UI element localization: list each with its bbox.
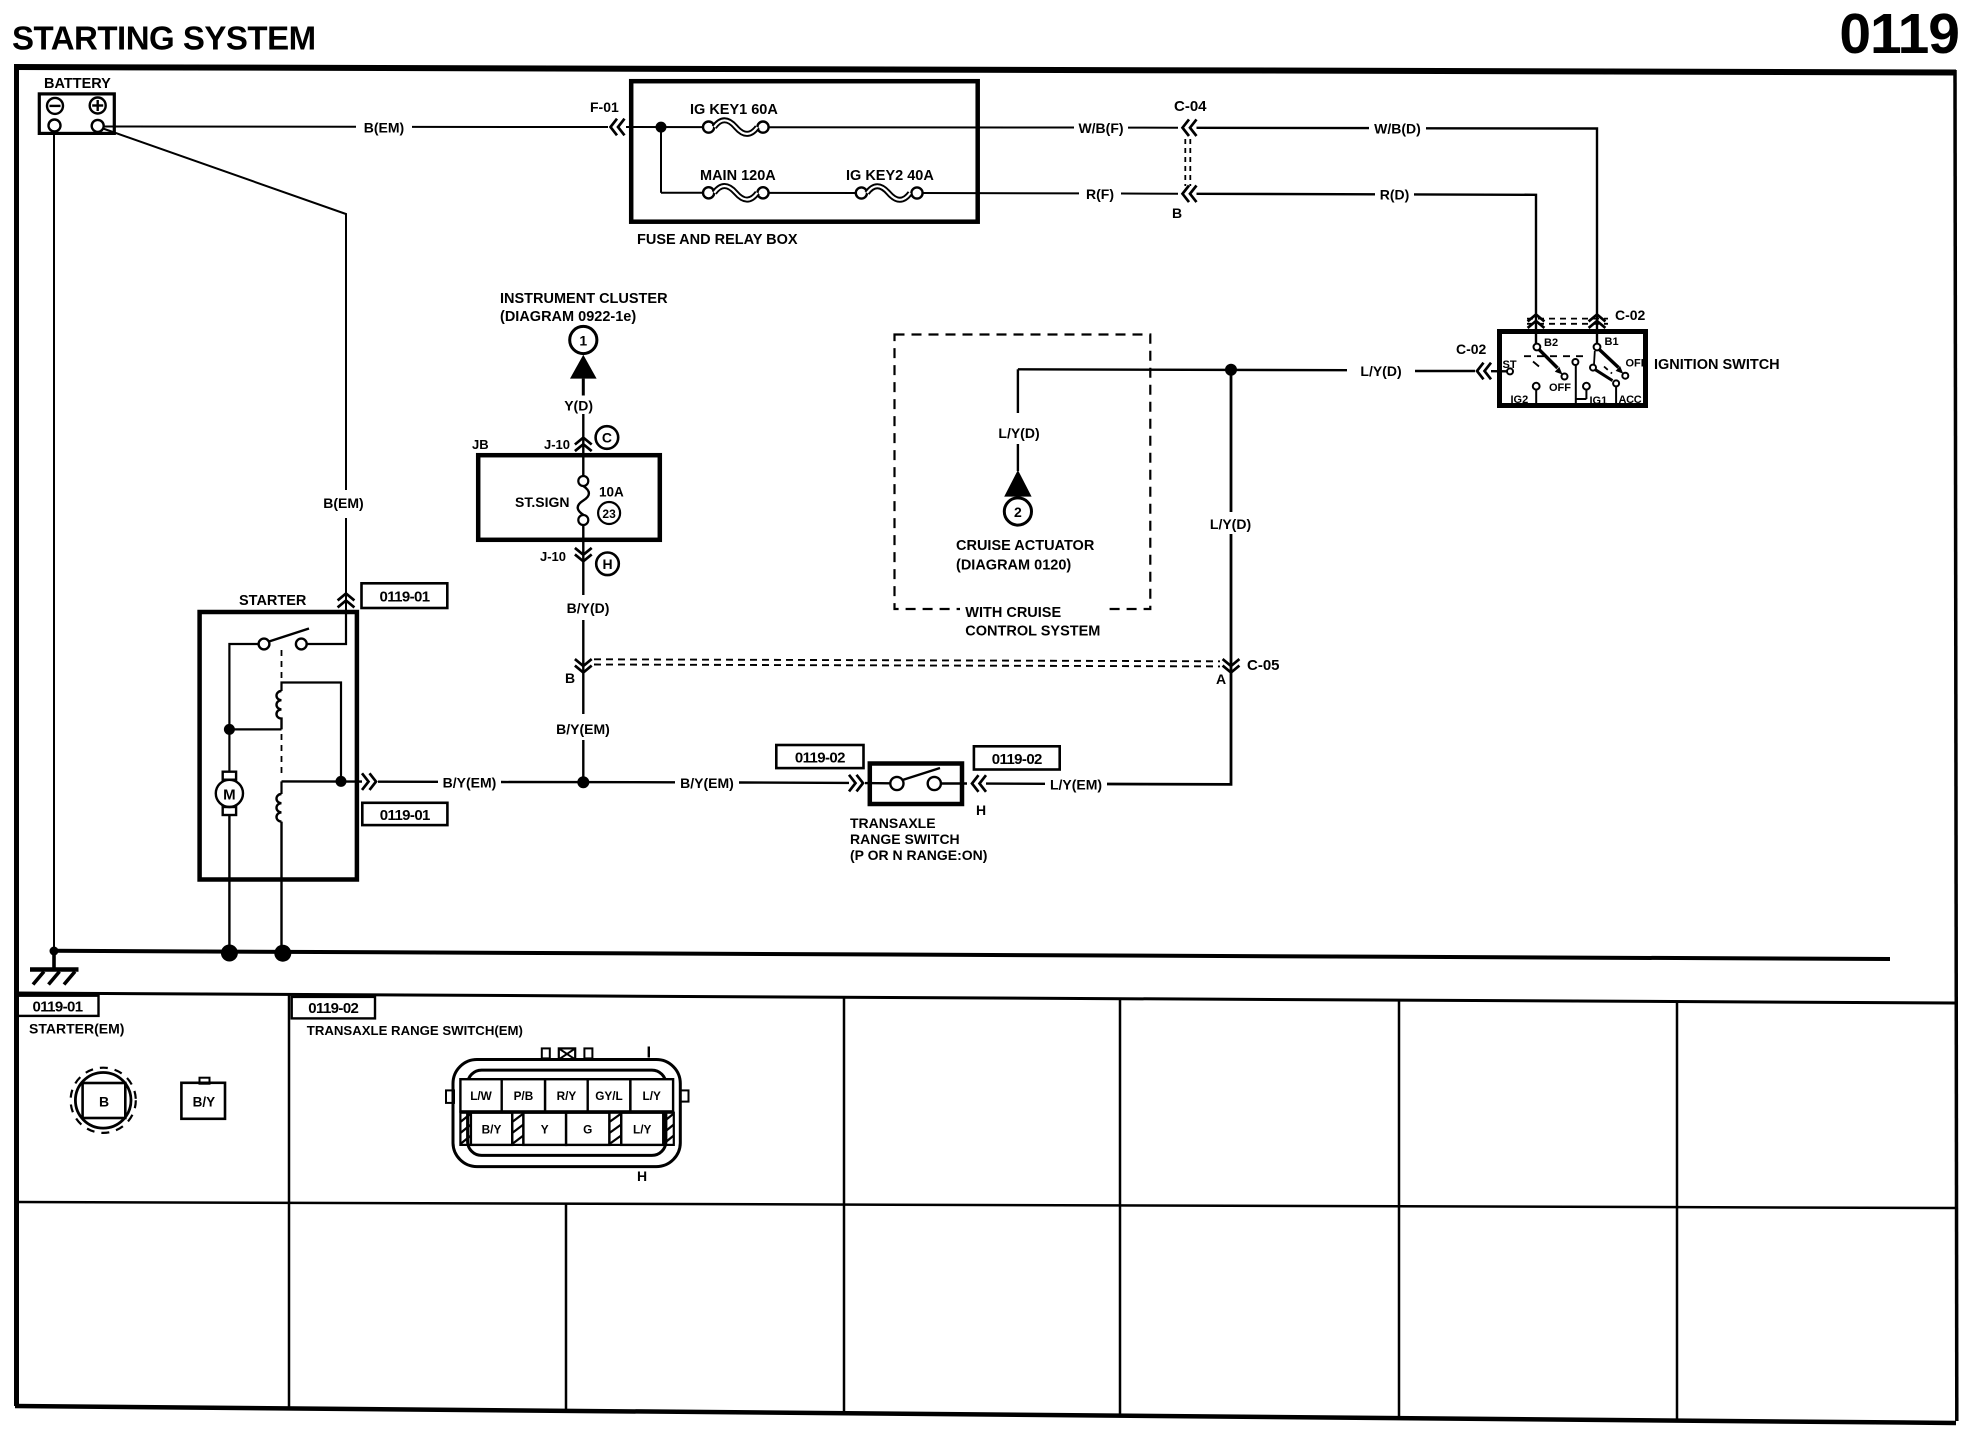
transaxle switch internals bbox=[865, 768, 967, 790]
svg-text:STARTING SYSTEM: STARTING SYSTEM bbox=[12, 20, 316, 57]
svg-text:A: A bbox=[1216, 671, 1226, 687]
svg-text:J-10: J-10 bbox=[540, 549, 566, 564]
connector B/Y (starter terminal) bbox=[181, 1078, 225, 1119]
battery bbox=[39, 94, 114, 133]
svg-text:CRUISE ACTUATOR: CRUISE ACTUATOR bbox=[956, 538, 1095, 554]
pin row 1 bbox=[460, 1079, 673, 1111]
svg-text:0119: 0119 bbox=[1839, 2, 1959, 66]
svg-text:B/Y(EM): B/Y(EM) bbox=[556, 721, 610, 737]
svg-text:B: B bbox=[1172, 205, 1182, 221]
svg-text:L/Y: L/Y bbox=[633, 1123, 651, 1137]
connector side tabs bbox=[446, 1090, 454, 1103]
junction dot motor to bus bbox=[221, 945, 238, 962]
wire B(EM) vertical to starter bbox=[345, 518, 347, 641]
starter box bbox=[200, 612, 357, 880]
wire W/B(D) bbox=[1197, 127, 1370, 130]
connector 0119-01 chevrons starter output bbox=[362, 773, 376, 790]
label box 0119-02 (transaxle right) bbox=[974, 746, 1060, 769]
terminal B1 bbox=[1594, 344, 1601, 351]
connector pin C circled bbox=[596, 426, 619, 449]
svg-text:C-02: C-02 bbox=[1615, 307, 1646, 323]
ignition switch box bbox=[1500, 332, 1646, 406]
svg-text:H: H bbox=[976, 802, 986, 818]
svg-text:B1: B1 bbox=[1605, 336, 1619, 348]
connector J-10 top chevrons bbox=[575, 438, 592, 452]
svg-text:Y(D): Y(D) bbox=[564, 398, 593, 414]
wire fuse2 to R(F) bbox=[923, 192, 1079, 194]
fuse number 23 circled bbox=[598, 502, 620, 524]
connector C-04 upper chevrons bbox=[1183, 119, 1197, 136]
connector C-02 ST chevrons bbox=[1477, 363, 1491, 380]
svg-text:L/Y: L/Y bbox=[643, 1089, 661, 1103]
fuse IG KEY1 60A bbox=[703, 120, 769, 134]
svg-text:W/B(D): W/B(D) bbox=[1374, 121, 1421, 137]
linkage dashes bbox=[1524, 355, 1589, 357]
hold-in coil bbox=[277, 794, 282, 822]
label box 0119-02 (transaxle left) bbox=[776, 745, 863, 768]
instrument cluster circle 1 bbox=[570, 326, 597, 353]
junction dot B/Y(EM) bbox=[577, 776, 589, 788]
wire R(F) to C-04 bbox=[1121, 193, 1178, 195]
cruise actuator arrow bbox=[1004, 470, 1031, 497]
fuse IG KEY2 40A bbox=[856, 186, 923, 200]
starter internal wire from top bbox=[307, 610, 347, 644]
svg-text:IG2: IG2 bbox=[1511, 394, 1529, 406]
wire B/Y(EM) to transaxle bbox=[378, 781, 438, 783]
terminal IG2 with stub bbox=[1533, 383, 1540, 390]
wire L/Y(D) horizontal bbox=[1018, 368, 1347, 371]
table label box 0119-02 bbox=[292, 997, 375, 1019]
svg-text:G: G bbox=[583, 1123, 592, 1137]
svg-text:C-04: C-04 bbox=[1174, 98, 1207, 115]
starter output wire B/Y(EM) bbox=[282, 780, 363, 783]
svg-text:ST: ST bbox=[1503, 359, 1517, 371]
connector 0119-02 chevrons transaxle right bbox=[972, 775, 986, 792]
wire B(EM) horizontal battery to F-01 bbox=[104, 126, 356, 128]
wire into fuse box with junction bbox=[626, 126, 704, 128]
junction dot in starter bbox=[224, 724, 235, 735]
wire W/B(F) to C-04 bbox=[1128, 127, 1178, 129]
svg-text:M: M bbox=[223, 787, 236, 804]
solenoid plunger dashed link bbox=[281, 650, 283, 682]
svg-text:IG1: IG1 bbox=[1590, 395, 1608, 407]
label WITH CRUISE CONTROL SYSTEM bbox=[960, 599, 1105, 620]
svg-text:B/Y(EM): B/Y(EM) bbox=[680, 775, 734, 791]
svg-text:P/B: P/B bbox=[514, 1089, 534, 1103]
svg-text:CONTROL SYSTEM: CONTROL SYSTEM bbox=[965, 624, 1100, 640]
svg-text:0119-01: 0119-01 bbox=[32, 999, 82, 1016]
junction block JB box bbox=[478, 455, 660, 540]
svg-text:GY/L: GY/L bbox=[595, 1089, 623, 1103]
connector 0119-02 chevrons transaxle left bbox=[849, 775, 863, 792]
svg-text:0119-02: 0119-02 bbox=[795, 750, 845, 767]
svg-text:STARTER(EM): STARTER(EM) bbox=[29, 1021, 124, 1037]
wire between fuses bbox=[769, 192, 856, 194]
svg-text:B(EM): B(EM) bbox=[323, 495, 363, 511]
svg-text:2: 2 bbox=[1014, 504, 1022, 520]
svg-text:WITH CRUISE: WITH CRUISE bbox=[965, 605, 1061, 621]
table grid bbox=[15, 993, 1956, 1423]
svg-text:(P OR N RANGE:ON): (P OR N RANGE:ON) bbox=[850, 847, 987, 863]
connector C-02 chevrons above ignition switch bbox=[1528, 315, 1545, 328]
starter motor bbox=[216, 772, 243, 815]
svg-text:B/Y(D): B/Y(D) bbox=[567, 600, 610, 616]
svg-text:B: B bbox=[565, 670, 575, 686]
svg-text:L/Y(EM): L/Y(EM) bbox=[1050, 777, 1102, 793]
svg-text:R(D): R(D) bbox=[1380, 187, 1410, 203]
junction dot F-01 feed bbox=[656, 122, 667, 133]
svg-text:RANGE SWITCH: RANGE SWITCH bbox=[850, 831, 960, 847]
connector J-10 bottom chevrons bbox=[575, 548, 592, 561]
svg-text:B/Y: B/Y bbox=[482, 1123, 502, 1137]
wire motor to ground bus bbox=[228, 815, 230, 954]
transaxle range switch box bbox=[870, 764, 962, 805]
starter solenoid switch bbox=[259, 629, 309, 650]
svg-text:R(F): R(F) bbox=[1086, 186, 1114, 202]
svg-text:L/W: L/W bbox=[470, 1089, 492, 1103]
svg-text:0119-01: 0119-01 bbox=[380, 807, 430, 824]
connector housing bbox=[453, 1060, 680, 1167]
junction dot battery to bus bbox=[50, 947, 59, 956]
connector C-04 lower chevrons bbox=[1183, 186, 1197, 203]
wire B/Y(D) bbox=[582, 562, 584, 595]
label box 0119-01 (starter top) bbox=[362, 583, 448, 608]
ignition terminal labels bbox=[1503, 336, 1648, 407]
svg-text:IG KEY1 60A: IG KEY1 60A bbox=[690, 102, 778, 118]
switch arm B1-OFF bbox=[1599, 349, 1618, 367]
terminal B2 bbox=[1534, 344, 1541, 351]
svg-text:B(EM): B(EM) bbox=[364, 120, 404, 136]
svg-text:B/Y: B/Y bbox=[193, 1095, 216, 1110]
wire junction to pull-in coil bbox=[229, 728, 281, 730]
ground bus bbox=[52, 951, 1890, 959]
ignition switch internals bbox=[1507, 344, 1628, 407]
hatched spacers bbox=[460, 1113, 673, 1145]
fuse and relay box bbox=[631, 81, 978, 222]
svg-text:W/B(F): W/B(F) bbox=[1078, 120, 1123, 136]
svg-text:B2: B2 bbox=[1544, 337, 1558, 349]
terminal ST bbox=[1507, 368, 1513, 374]
wire diagonal battery to starter feed bbox=[103, 129, 346, 491]
pull-in coil bbox=[276, 691, 281, 729]
wire L/Y(EM) bbox=[986, 782, 1045, 785]
svg-text:0119-02: 0119-02 bbox=[992, 751, 1042, 768]
svg-text:ACC: ACC bbox=[1619, 394, 1642, 406]
cruise actuator circle 2 bbox=[1004, 498, 1031, 525]
svg-text:STARTER: STARTER bbox=[239, 593, 307, 609]
svg-text:IGNITION SWITCH: IGNITION SWITCH bbox=[1654, 357, 1780, 373]
svg-text:0119-02: 0119-02 bbox=[308, 1000, 358, 1017]
wire fuse1 to W/B(F) bbox=[769, 126, 1074, 128]
terminal ACC stub bbox=[1615, 386, 1617, 406]
svg-text:(DIAGRAM 0922-1e): (DIAGRAM 0922-1e) bbox=[500, 309, 636, 325]
svg-text:MAIN 120A: MAIN 120A bbox=[700, 168, 776, 184]
wire hold-in coil to ground bus bbox=[280, 822, 282, 954]
svg-text:H: H bbox=[602, 556, 612, 572]
svg-text:JB: JB bbox=[472, 437, 489, 452]
wire L/Y(D) vertical bbox=[1230, 534, 1233, 674]
instrument cluster arrow bbox=[570, 355, 597, 379]
wire out of JB bbox=[582, 525, 584, 563]
fuse ST.SIGN 10A bbox=[578, 476, 589, 525]
svg-text:B/Y(EM): B/Y(EM) bbox=[443, 775, 497, 791]
svg-text:BATTERY: BATTERY bbox=[44, 76, 111, 92]
wire into JB bbox=[582, 452, 584, 477]
table label box 0119-01 bbox=[17, 996, 99, 1016]
connector C-05 dashed pair bbox=[594, 659, 1220, 661]
wire cruise branch bbox=[1017, 369, 1019, 413]
connector pin H circled bbox=[596, 553, 619, 576]
svg-text:TRANSAXLE: TRANSAXLE bbox=[850, 815, 936, 831]
svg-text:TRANSAXLE RANGE SWITCH(EM): TRANSAXLE RANGE SWITCH(EM) bbox=[307, 1023, 523, 1038]
svg-text:B: B bbox=[99, 1094, 109, 1110]
connector C-05 A chevrons bbox=[1223, 659, 1240, 672]
svg-text:L/Y(D): L/Y(D) bbox=[1360, 363, 1401, 379]
svg-text:10A: 10A bbox=[599, 485, 624, 500]
label box 0119-01 (starter output) bbox=[362, 803, 447, 825]
connector B chevrons (C-05) bbox=[575, 659, 592, 672]
svg-text:Y: Y bbox=[541, 1123, 549, 1137]
connector top tabs bbox=[542, 1048, 550, 1058]
svg-text:F-01: F-01 bbox=[590, 99, 619, 115]
connector B (starter terminal) bbox=[71, 1068, 136, 1133]
wire R(D) bbox=[1197, 193, 1376, 196]
svg-text:(DIAGRAM 0120): (DIAGRAM 0120) bbox=[956, 558, 1071, 574]
svg-text:J-10: J-10 bbox=[544, 437, 570, 452]
svg-text:L/Y(D): L/Y(D) bbox=[1210, 516, 1251, 532]
fuse MAIN 120A bbox=[703, 186, 769, 200]
svg-text:FUSE AND RELAY BOX: FUSE AND RELAY BOX bbox=[637, 232, 798, 248]
svg-text:23: 23 bbox=[602, 507, 616, 521]
svg-text:OFF: OFF bbox=[1549, 382, 1571, 394]
svg-text:0119-01: 0119-01 bbox=[379, 589, 429, 606]
svg-text:INSTRUMENT CLUSTER: INSTRUMENT CLUSTER bbox=[500, 291, 668, 307]
wire Y(D) bbox=[582, 379, 585, 396]
svg-text:OFF: OFF bbox=[1626, 358, 1648, 370]
starter wire switch to motor branch bbox=[229, 644, 258, 772]
junction dot coil to bus bbox=[274, 945, 291, 962]
svg-text:ST.SIGN: ST.SIGN bbox=[515, 494, 569, 510]
svg-text:L/Y(D): L/Y(D) bbox=[998, 425, 1039, 441]
svg-text:R/Y: R/Y bbox=[557, 1089, 577, 1103]
svg-text:C-02: C-02 bbox=[1456, 341, 1487, 357]
wire coil top loop to output bbox=[282, 683, 342, 782]
switch arm to ACC bbox=[1590, 365, 1596, 371]
junction dot L/Y(D) bbox=[1225, 364, 1237, 376]
connector C-04 dashed pair bbox=[1184, 139, 1186, 186]
svg-text:H: H bbox=[637, 1168, 647, 1184]
connector index tick I bbox=[648, 1047, 650, 1058]
cruise actuator dashed box bbox=[895, 335, 1151, 610]
connector C-02 dashed pair bbox=[1527, 318, 1608, 320]
terminal IG1 with stub bbox=[1583, 383, 1590, 390]
wire junction down inside fuse box bbox=[660, 127, 662, 193]
svg-text:C-05: C-05 bbox=[1247, 657, 1280, 674]
svg-text:1: 1 bbox=[579, 332, 587, 348]
ground symbol bbox=[30, 950, 79, 985]
transaxle connector drawing bbox=[446, 1047, 689, 1185]
wire battery negative to ground bus bbox=[53, 132, 55, 952]
connector 0119-01 chevrons at starter top bbox=[338, 594, 355, 608]
junction dot starter output bbox=[336, 776, 347, 787]
switch arm B2-OFF bbox=[1539, 349, 1558, 368]
pin row 2 bbox=[471, 1113, 663, 1145]
wire L/Y(D) to ST bbox=[1415, 370, 1475, 372]
connector F-01 chevrons bbox=[611, 119, 625, 136]
svg-text:IG KEY2 40A: IG KEY2 40A bbox=[846, 168, 934, 184]
svg-text:C: C bbox=[602, 430, 612, 446]
